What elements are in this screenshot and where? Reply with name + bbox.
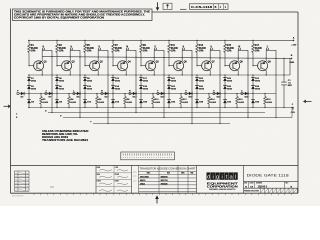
svg-text:68,000: 68,000	[143, 48, 151, 50]
node: gating junction	[28, 93, 29, 94]
svg-text:DEC FORM NO: DEC FORM NO	[12, 196, 24, 198]
svg-text:R11: R11	[171, 45, 176, 47]
resistor R16 6,800	[236, 94, 238, 97]
wire base	[141, 65, 146, 67]
wire collector riser	[153, 50, 155, 61]
terminal P (output)	[154, 48, 156, 50]
svg-text:6,800: 6,800	[71, 102, 77, 104]
wire cap riser	[283, 58, 284, 59]
top margin dash	[180, 8, 187, 10]
terminal A +10V	[293, 40, 295, 42]
drawing frame top border	[152, 11, 299, 13]
svg-text:68,000: 68,000	[199, 48, 207, 50]
DEC digital logo	[207, 172, 238, 180]
svg-text:D662: D662	[199, 89, 205, 91]
collector/ground bus (net B)	[42, 57, 291, 59]
svg-text:6,800: 6,800	[239, 102, 245, 104]
terminal C -15V	[292, 107, 294, 109]
svg-text:6,800: 6,800	[211, 102, 217, 104]
resistor R11 68,000 10%	[168, 40, 170, 44]
copyright notice box	[13, 9, 153, 21]
resistor R15 68,000 10%	[224, 40, 226, 44]
svg-text:10%: 10%	[31, 51, 36, 53]
resistor R12 6,800	[180, 94, 182, 97]
svg-text:COPYRIGHT 1960 BY DIGITAL EQUI: COPYRIGHT 1960 BY DIGITAL EQUIPMENT CORP…	[14, 17, 104, 20]
wire output to gating network	[42, 49, 52, 51]
top margin symbol box	[163, 3, 172, 9]
node: base of Q4	[112, 65, 113, 66]
svg-text:D662: D662	[255, 81, 261, 83]
wire gating row	[243, 93, 276, 95]
svg-text:D662: D662	[31, 89, 37, 91]
revision table	[15, 171, 30, 191]
wire output descender to bus	[135, 94, 137, 113]
svg-text:2N2894: 2N2894	[161, 176, 169, 179]
diode D16	[112, 94, 114, 100]
svg-text:CODE: CODE	[249, 183, 253, 185]
diode D11	[77, 92, 80, 95]
svg-text:i: i	[221, 174, 222, 180]
svg-text:D662: D662	[115, 81, 121, 83]
node: column crosses ground bus	[140, 74, 141, 75]
right margin arrow	[306, 100, 312, 102]
bottom margin up arrow	[156, 198, 158, 204]
resistor R7 68,000 10%	[112, 40, 114, 44]
diode D27	[189, 92, 192, 95]
node: column on -15V bus	[56, 107, 57, 108]
node: base of Q7	[196, 65, 197, 66]
svg-text:DIODE GATE 1118: DIODE GATE 1118	[247, 173, 290, 178]
resistor R13 68,000 10%	[196, 40, 198, 44]
wire collector riser	[181, 50, 183, 61]
svg-text:D662: D662	[59, 81, 65, 83]
diode D12	[84, 94, 86, 100]
node: stage 5 base column joins +10V bus	[140, 40, 141, 41]
transistor Q5	[146, 61, 156, 71]
wire collector riser	[97, 50, 99, 61]
resistor R8 6,800	[124, 94, 126, 97]
node: base of Q2	[56, 65, 57, 66]
diode D32	[224, 94, 226, 100]
svg-text:g: g	[216, 174, 219, 180]
wire output descender to bus	[79, 94, 81, 118]
node: base of Q3	[84, 65, 85, 66]
terminal B GND	[291, 58, 293, 60]
resistor R14 6,800	[208, 94, 210, 97]
svg-text:MFD: MFD	[288, 85, 293, 87]
svg-text:D662: D662	[31, 81, 37, 83]
drawing frame right border	[297, 12, 299, 193]
wire output to gating network	[70, 49, 80, 51]
svg-text:CIRCUITS ARE PROPRIETARY IN NA: CIRCUITS ARE PROPRIETARY IN NATURE AND S…	[14, 14, 145, 17]
terminal U (output)	[210, 48, 212, 50]
smudge	[50, 186, 54, 188]
svg-text:CORPORATION: CORPORATION	[207, 186, 238, 189]
terminal S (output)	[182, 48, 184, 50]
svg-text:C-CS-1118: C-CS-1118	[191, 5, 213, 9]
wire gating row	[187, 93, 220, 95]
resistor R18 6,800	[264, 94, 266, 97]
svg-text:THIS SCHEMATIC IS FURNISHED ON: THIS SCHEMATIC IS FURNISHED ONLY FOR TES…	[14, 11, 151, 14]
svg-text:RESISTORS ARE 1/4W; 5%.: RESISTORS ARE 1/4W; 5%.	[42, 133, 78, 136]
svg-text:D662: D662	[227, 89, 233, 91]
diode D28	[196, 94, 198, 100]
diode D33 D662	[252, 75, 254, 78]
svg-text:NUMBER: NUMBER	[256, 183, 262, 185]
svg-text:R13: R13	[199, 45, 204, 47]
diode D6 D662	[55, 85, 59, 87]
wire output descender to bus	[107, 94, 109, 124]
wire collector riser	[69, 50, 71, 61]
diode D36	[252, 94, 254, 100]
terminal E (output)	[42, 48, 44, 50]
diode D30 D662	[223, 85, 227, 87]
node: gating junction	[224, 93, 225, 94]
node: gating junction	[84, 93, 85, 94]
svg-text:R17: R17	[255, 45, 260, 47]
wire gating row	[47, 93, 80, 95]
diode D8	[56, 94, 58, 100]
svg-text:GND: GND	[289, 62, 294, 64]
terminal N (input)	[101, 92, 103, 94]
wire output descender to bus	[191, 94, 193, 124]
svg-text:TRANSISTORS ARE DEC2894: TRANSISTORS ARE DEC2894	[42, 139, 89, 142]
svg-text:1N3606: 1N3606	[161, 183, 169, 185]
node: column crosses ground bus	[252, 74, 253, 75]
transistor Q9	[258, 61, 268, 71]
resistor R2 6,800	[40, 94, 42, 97]
resistor R6 6,800	[96, 94, 98, 97]
node: stage 2 base column joins +10V bus	[56, 40, 57, 41]
svg-text:10%: 10%	[87, 51, 92, 53]
diode D24	[168, 94, 170, 100]
terminal L (input)	[73, 92, 75, 94]
wire emitter to ground bus	[97, 70, 99, 75]
wire gating row	[19, 93, 52, 95]
diode D18 D662	[139, 85, 143, 87]
svg-text:D662: D662	[59, 89, 65, 91]
node: column crosses ground bus	[196, 74, 197, 75]
wire collector riser	[209, 50, 211, 61]
svg-text:D662: D662	[87, 89, 93, 91]
left margin arrow	[4, 105, 9, 107]
node: column on -15V bus	[140, 107, 141, 108]
svg-text:10%: 10%	[59, 51, 64, 53]
wire base	[85, 65, 90, 67]
diode D3	[21, 92, 24, 95]
diode D14 D662	[111, 85, 115, 87]
diode D19	[133, 92, 136, 95]
transistor Q6	[174, 61, 184, 71]
diode D7	[49, 92, 52, 95]
wire emitter to ground bus	[209, 70, 211, 75]
terminal V (input)	[185, 92, 187, 94]
wire emitter to ground bus	[181, 70, 183, 75]
svg-text:REV: REV	[285, 183, 288, 185]
title block section dividers	[95, 166, 97, 194]
wire gating row	[215, 93, 248, 95]
node: gating junction	[56, 93, 57, 94]
title block top line	[11, 165, 299, 167]
svg-text:10%: 10%	[227, 51, 232, 53]
node: stage 7 base column joins +10V bus	[196, 40, 197, 41]
transistor Q8	[230, 61, 240, 71]
top margin down arrow	[157, 2, 159, 8]
node: stage 9 base column joins +10V bus	[252, 40, 253, 41]
node: column on -15V bus	[84, 107, 85, 108]
wire output descender to bus	[163, 94, 165, 118]
diode D13 D662	[112, 75, 114, 78]
node: stage 4 base column joins +10V bus	[112, 40, 113, 41]
node: gating junction	[252, 93, 253, 94]
svg-text:68,000: 68,000	[59, 48, 67, 50]
wire output to gating network	[126, 49, 136, 51]
diode D25 D662	[196, 75, 198, 78]
terminal Y (output)	[266, 48, 268, 50]
module connector diagram	[121, 152, 175, 160]
svg-text:TRANSISTOR & DIODE CONVERSION: TRANSISTOR & DIODE CONVERSION CHART	[140, 167, 196, 171]
svg-text:D662: D662	[199, 81, 205, 83]
svg-text:10%: 10%	[171, 51, 176, 53]
resistor R5 68,000 10%	[84, 40, 86, 44]
node: column on -15V bus	[168, 107, 169, 108]
terminal K (output)	[98, 48, 100, 50]
node: column on -15V bus	[224, 107, 225, 108]
signature block	[96, 166, 132, 193]
svg-text:CS: CS	[250, 186, 254, 188]
terminal X (input)	[213, 92, 215, 94]
svg-text:D662: D662	[171, 89, 177, 91]
diode D15	[105, 92, 108, 95]
svg-text:DRN: DRN	[97, 167, 100, 169]
+10V top bus (net A)	[28, 39, 294, 41]
transistor Q7	[202, 61, 212, 71]
svg-text:D662: D662	[227, 81, 233, 83]
svg-text:68,000: 68,000	[227, 48, 235, 50]
transistor Q2	[62, 61, 72, 71]
svg-text:-15V: -15V	[290, 112, 295, 114]
node: column crosses ground bus	[28, 74, 29, 75]
node: stage 8 base column joins +10V bus	[224, 40, 225, 41]
transistor Q4	[118, 61, 128, 71]
node: gating junction	[140, 93, 141, 94]
node: column on -15V bus	[28, 107, 29, 108]
wire emitter to ground bus	[69, 70, 71, 75]
transistor & diode conversion chart	[139, 166, 197, 194]
svg-text:+10V: +10V	[291, 44, 297, 46]
bus F	[93, 123, 230, 125]
diode D34 D662	[251, 85, 255, 87]
wire collector riser	[41, 50, 43, 61]
diode D26 D662	[195, 85, 199, 87]
terminal M (output)	[126, 48, 128, 50]
diode D29 D662	[224, 75, 226, 78]
wire collector riser	[237, 50, 239, 61]
resistor R10 6,800	[152, 94, 154, 97]
svg-text:D662: D662	[87, 81, 93, 83]
-15V bus (net C)	[28, 107, 293, 109]
svg-text:10%: 10%	[115, 51, 120, 53]
svg-text:6,800: 6,800	[99, 102, 105, 104]
diode D31	[217, 92, 220, 95]
svg-text:D662: D662	[255, 89, 261, 91]
svg-text:l: l	[235, 174, 236, 180]
wire gating row	[159, 93, 192, 95]
transistor Q1	[34, 61, 44, 71]
wire output to gating network	[98, 49, 108, 51]
resistor R17 68,000 10%	[252, 40, 254, 44]
wire base	[29, 65, 34, 67]
resistor R9 68,000 10%	[140, 40, 142, 44]
wire base	[113, 65, 118, 67]
svg-text:10%: 10%	[199, 51, 204, 53]
wire collector riser	[125, 50, 127, 61]
wire output descender to bus	[51, 94, 53, 113]
svg-text:6,800: 6,800	[183, 102, 189, 104]
wire output descender to bus	[247, 94, 249, 118]
svg-text:68,000: 68,000	[255, 48, 263, 50]
svg-text:68,000: 68,000	[115, 48, 123, 50]
diode D35	[245, 92, 248, 95]
svg-text:1118-B-1: 1118-B-1	[258, 186, 268, 189]
node: column crosses ground bus	[168, 74, 169, 75]
svg-text:6,800: 6,800	[43, 102, 49, 104]
wire base	[169, 65, 174, 67]
node: column crosses ground bus	[56, 74, 57, 75]
wire emitter to ground bus	[41, 70, 43, 75]
svg-text:M: M	[126, 46, 128, 48]
svg-text:DEC2894: DEC2894	[140, 176, 150, 179]
node: base of Q1	[28, 65, 29, 66]
wire output descender to bus	[219, 94, 221, 124]
svg-text:D662: D662	[143, 89, 149, 91]
wire emitter to ground bus	[265, 70, 267, 75]
node: column on -15V bus	[112, 107, 113, 108]
drawing number strip	[190, 4, 229, 10]
svg-text:MD30: MD30	[140, 180, 146, 182]
wire output to gating network	[182, 49, 192, 51]
node: stage 6 base column joins +10V bus	[168, 40, 169, 41]
svg-text:R15: R15	[227, 45, 232, 47]
wire output to gating network	[210, 49, 220, 51]
wire gating row	[131, 93, 164, 95]
terminal W (output)	[238, 48, 240, 50]
terminal R (input)	[129, 92, 131, 94]
svg-text:i: i	[212, 174, 213, 180]
wire output to gating network	[266, 49, 276, 51]
margin tick marks	[34, 194, 291, 196]
drawing frame bottom border	[11, 192, 299, 194]
wire base	[225, 65, 230, 67]
node: stage 1 base column joins +10V bus	[28, 40, 29, 41]
wire collector riser	[265, 50, 267, 61]
terminal H (output)	[70, 48, 72, 50]
svg-text:D662: D662	[115, 89, 121, 91]
wire emitter to ground bus	[153, 70, 155, 75]
svg-text:D662: D662	[143, 81, 149, 83]
terminal J (input)	[45, 92, 47, 94]
diode D2 D662	[27, 85, 31, 87]
diode D22 D662	[167, 85, 171, 87]
svg-text:d: d	[207, 174, 210, 180]
node: column crosses ground bus	[224, 74, 225, 75]
wire base	[57, 65, 62, 67]
bus D	[48, 112, 265, 114]
svg-text:6,800: 6,800	[155, 102, 161, 104]
diode D5 D662	[56, 75, 58, 78]
svg-text:UNLESS OTHERWISE INDICATED:: UNLESS OTHERWISE INDICATED:	[42, 130, 89, 133]
svg-text:68,000: 68,000	[87, 48, 95, 50]
svg-text:D662: D662	[171, 81, 177, 83]
wire output descender to bus	[275, 94, 277, 118]
diode D17 D662	[140, 75, 142, 78]
svg-text:10%: 10%	[143, 51, 148, 53]
node: base of Q6	[168, 65, 169, 66]
diode D20	[140, 94, 142, 100]
diode D9 D662	[84, 75, 86, 78]
wire base	[197, 65, 202, 67]
wire emitter to ground bus	[125, 70, 127, 75]
wire emitter to ground bus	[237, 70, 239, 75]
node: stage 3 base column joins +10V bus	[84, 40, 85, 41]
transistor Q3	[90, 61, 100, 71]
diode D10 D662	[83, 85, 87, 87]
node: base of Q8	[224, 65, 225, 66]
svg-text:10%: 10%	[255, 51, 260, 53]
diode D23	[161, 92, 164, 95]
node: gating junction	[196, 93, 197, 94]
diode D21 D662	[168, 75, 170, 78]
terminal Z (input)	[241, 92, 243, 94]
svg-text:6,800: 6,800	[127, 102, 133, 104]
node: column on -15V bus	[196, 107, 197, 108]
node: base of Q5	[140, 65, 141, 66]
wire base	[253, 65, 258, 67]
wire output to gating network	[154, 49, 164, 51]
terminal T (input)	[157, 92, 159, 94]
svg-text:B: B	[215, 6, 217, 9]
node: gating junction	[112, 93, 113, 94]
capacitor C1 .01 MFD	[281, 81, 287, 83]
wire gating row	[103, 93, 136, 95]
terminal F (input)	[17, 92, 19, 94]
node: column crosses ground bus	[112, 74, 113, 75]
wire output to gating network	[238, 49, 248, 51]
svg-text:68,000: 68,000	[31, 48, 39, 50]
resistor R4 6,800	[68, 94, 70, 97]
bus E	[63, 117, 292, 119]
ground bus (emitters)	[28, 74, 290, 76]
node: base of Q9	[252, 65, 253, 66]
svg-text:SIZE: SIZE	[244, 183, 247, 185]
diode D1 D662	[28, 75, 30, 78]
resistor R1 68,000 10%	[28, 40, 30, 44]
svg-text:6,800: 6,800	[267, 102, 273, 104]
diode D4	[28, 94, 30, 100]
svg-text:PRINTED CIRCUIT REV: PRINTED CIRCUIT REV	[244, 190, 259, 192]
wire gating row	[75, 93, 108, 95]
resistor R3 68,000 10%	[56, 40, 58, 44]
svg-text:68,000: 68,000	[171, 48, 179, 50]
svg-text:DIODES ARE D664: DIODES ARE D664	[42, 136, 69, 139]
node: column crosses ground bus	[84, 74, 85, 75]
svg-text:2N1754: 2N1754	[161, 179, 169, 182]
wire ground bus riser	[289, 59, 291, 76]
node: column on -15V bus	[252, 107, 253, 108]
drawing frame left border	[10, 9, 12, 194]
node: gating junction	[168, 93, 169, 94]
